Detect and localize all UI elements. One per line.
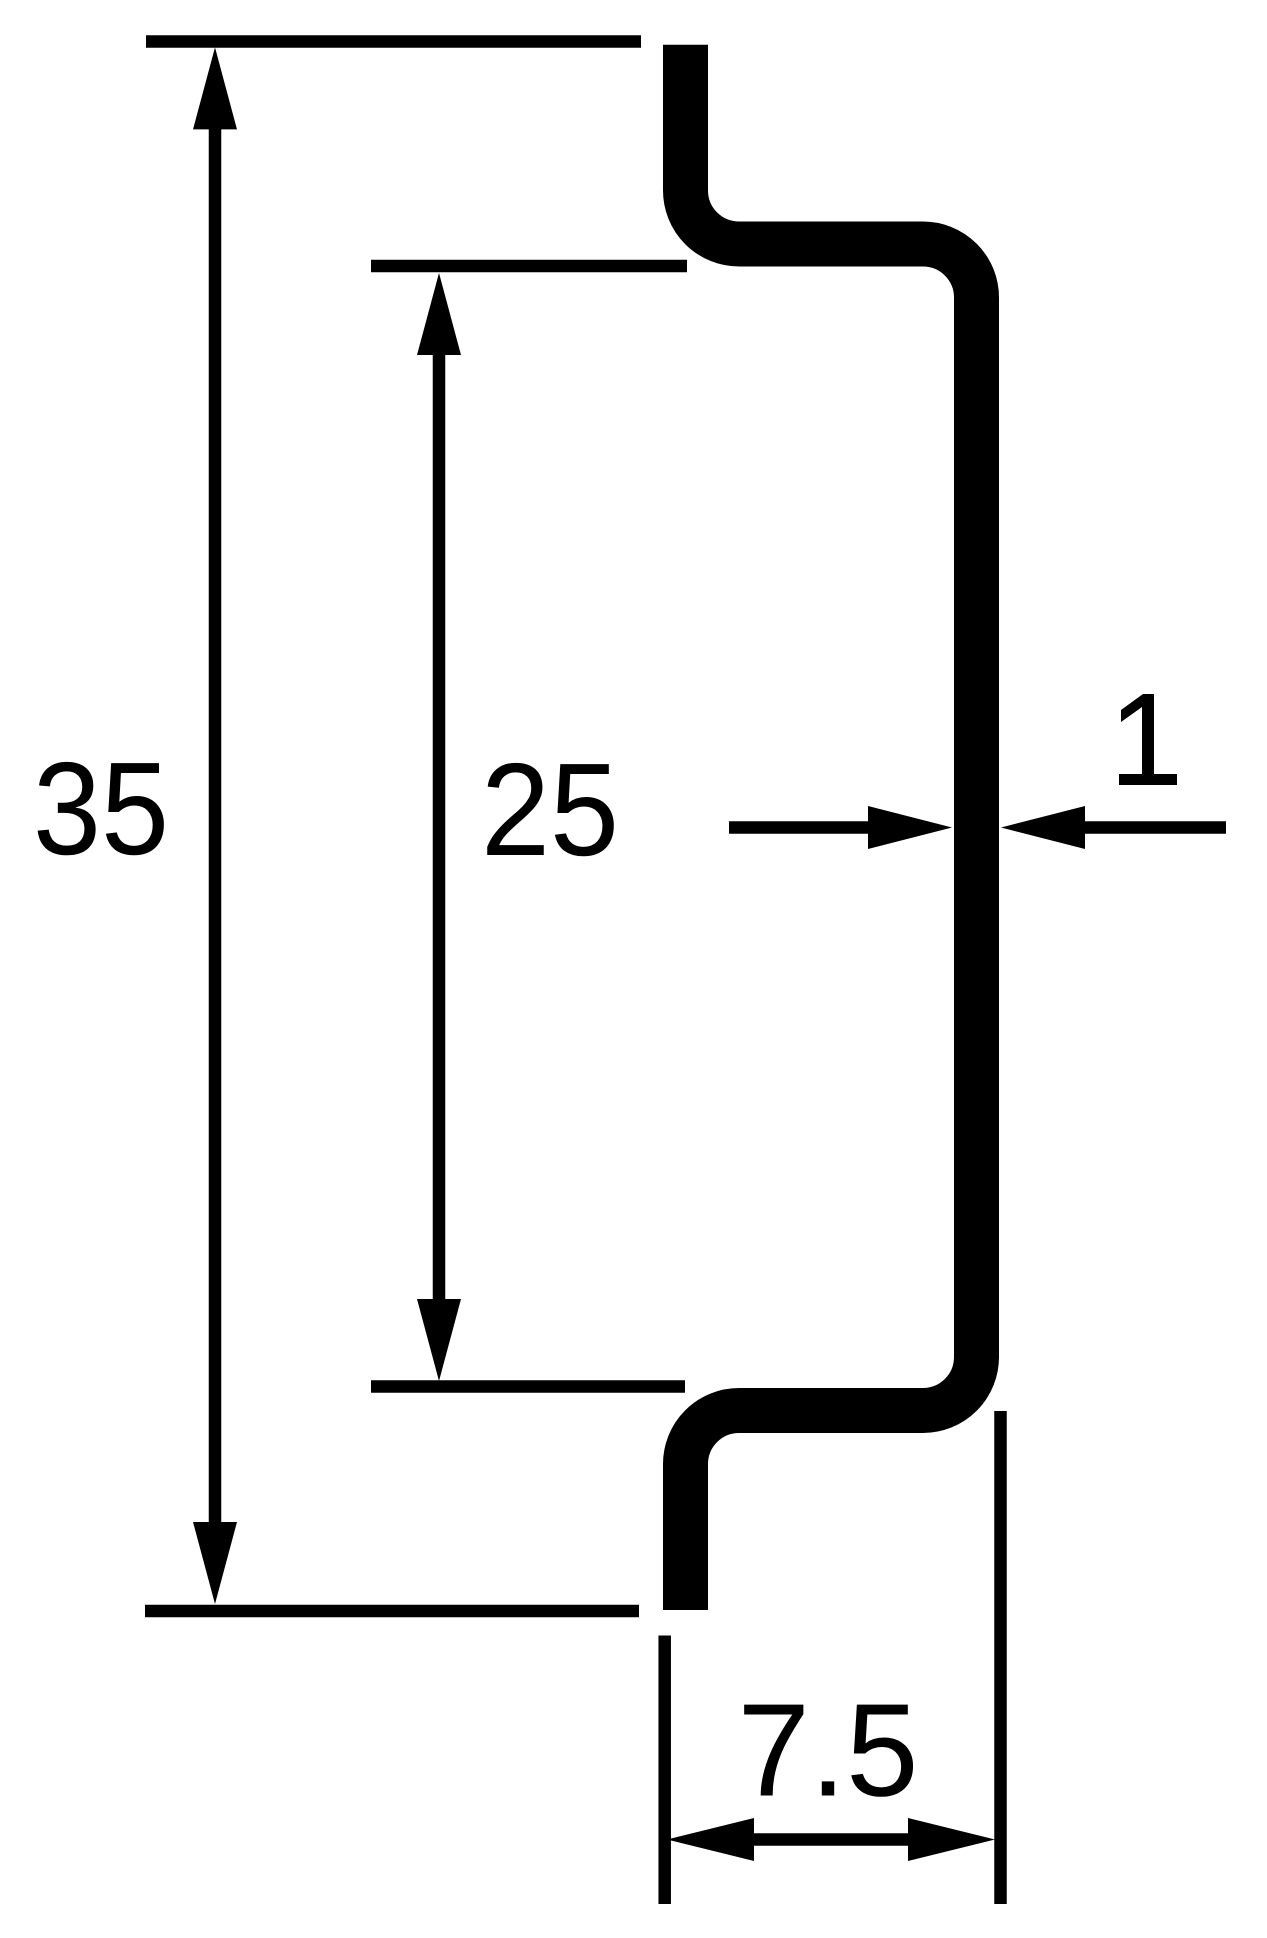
dimension 35: dimension line (209, 125, 222, 1526)
svg-text:35: 35 (33, 735, 169, 882)
svg-text:25: 25 (481, 736, 619, 883)
dimension 1: left leader line (729, 821, 872, 834)
dimension 35: bottom extension line (145, 1605, 639, 1618)
svg-text:7.5: 7.5 (738, 1677, 919, 1824)
dimension 7.5: left arrowhead (points left) (667, 1818, 754, 1861)
dimension 1: label (digit 1 with foot) (1119, 694, 1177, 785)
dimension 25: bottom extension line (371, 1380, 685, 1393)
dimension 35: bottom arrowhead (193, 1522, 237, 1604)
dimension 25: dimension line (433, 351, 446, 1303)
dimension 35: top extension line (146, 35, 641, 48)
dimension 7.5: dimension line (750, 1833, 912, 1846)
dimension 25: top extension line (371, 260, 687, 273)
dimension 35: top arrowhead (193, 47, 237, 129)
dimension 1: right arrowhead (points left) (1001, 806, 1085, 849)
dimension 1: right leader line (1081, 821, 1226, 834)
dimension 25: bottom arrowhead (417, 1299, 461, 1381)
dimension 1: left arrowhead (points right) (868, 806, 952, 849)
DIN rail profile (top-hat cross-section), stroke width 45 (686, 45, 977, 1610)
dimension 7.5: right extension line (994, 1411, 1007, 1904)
dimension 7.5: right arrowhead (points right) (908, 1818, 995, 1861)
dimension 7.5: left extension line (658, 1636, 671, 1905)
dimension 25: top arrowhead (417, 273, 461, 355)
